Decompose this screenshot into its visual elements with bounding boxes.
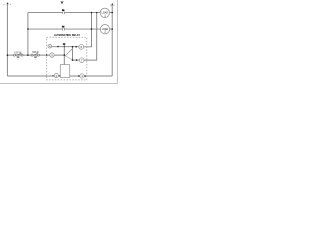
supply arrow left <box>3 3 11 6</box>
wire: contact common branch <box>52 46 79 48</box>
switch SW2 <box>31 54 33 56</box>
relay terminal 4 (aux, unconnected) <box>48 44 52 48</box>
contact arm (SPDT lever, upper throw) <box>65 49 72 56</box>
frame border (right and bottom) <box>0 0 117 83</box>
terminal break on line2 <box>62 28 64 30</box>
junction node dots <box>27 28 29 30</box>
relay terminal 5 (control in) <box>50 53 54 57</box>
tick mark V top <box>61 1 63 3</box>
relay terminal 6 (NO out) <box>79 44 84 49</box>
relay coil K1 <box>60 65 69 78</box>
wire: load 2 line <box>28 28 112 30</box>
relay enclosure dashed box <box>47 37 87 80</box>
wire: NC contact riser to line1 <box>84 13 97 61</box>
relay terminal 1 (coil right) <box>80 74 84 78</box>
wire: NO contact riser to line2 <box>84 13 92 47</box>
wire: common vertical stub <box>63 45 65 56</box>
relay terminal 2 (coil left) <box>54 74 58 78</box>
wire: control (float switch) line <box>7 54 64 56</box>
wire: load 1 line <box>28 12 112 14</box>
contact anchor blob <box>63 43 66 45</box>
load 2 motor circle <box>100 25 109 34</box>
wire: right supply rail L2 <box>111 5 113 76</box>
contact arm (SPDT lever, lower throw) <box>65 56 72 60</box>
load 1 motor circle <box>100 8 109 17</box>
supply arrow right <box>110 4 115 7</box>
relay terminal 7 (NC out) <box>79 58 84 63</box>
terminal flag on line1 <box>62 9 65 11</box>
wire: fixed contact tie bar <box>72 47 74 60</box>
terminal flag on line2 <box>62 26 65 28</box>
wire: left supply rail L1 <box>6 5 8 76</box>
wire: bottom return <box>7 75 112 77</box>
terminal break on line1 <box>62 11 64 13</box>
wire: coil feed <box>63 55 65 65</box>
float switch SW1 <box>13 54 15 56</box>
wire: feeder drop from line1 to control line <box>27 13 29 56</box>
wire: lower contact row <box>73 59 79 61</box>
